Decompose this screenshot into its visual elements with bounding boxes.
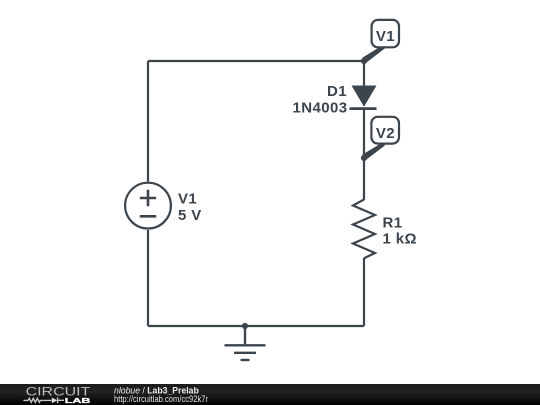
flag V2 <box>362 117 399 160</box>
junction node V2 <box>361 155 367 161</box>
svg-text:1 kΩ: 1 kΩ <box>383 231 417 248</box>
voltage source V1 <box>125 183 171 229</box>
label R1 1 kOhm <box>383 214 417 247</box>
diode D1 <box>350 86 377 109</box>
wire top (node V1 net) <box>148 60 364 62</box>
label D1 1N4003 <box>293 83 348 117</box>
wire bottom (ground net) <box>148 325 364 327</box>
CircuitLab logo: resistor zigzag + diode symbol <box>24 398 65 404</box>
svg-text:1N4003: 1N4003 <box>293 100 348 117</box>
footer bar <box>0 384 540 405</box>
svg-text:D1: D1 <box>327 83 347 100</box>
wire left lower <box>147 230 149 326</box>
svg-text:V2: V2 <box>376 125 395 142</box>
svg-text:V1: V1 <box>376 28 395 45</box>
svg-text:R1: R1 <box>383 214 403 231</box>
flag V1 <box>362 20 399 63</box>
junction node V1 <box>361 58 367 64</box>
svg-text:V1: V1 <box>178 190 197 207</box>
label V1 5 V <box>178 190 202 224</box>
svg-text:http://circuitlab.com/cc92k7r: http://circuitlab.com/cc92k7r <box>114 394 208 404</box>
resistor R1 <box>353 200 375 259</box>
svg-text:LAB: LAB <box>65 396 91 405</box>
wire right upper (V1 node to diode anode) <box>363 61 365 86</box>
wire right lower (resistor to ground net) <box>363 258 365 326</box>
wire right mid (diode cathode to resistor, node V2) <box>363 109 365 200</box>
wire left upper <box>147 61 149 182</box>
svg-text:5 V: 5 V <box>178 207 202 224</box>
ground <box>225 326 266 360</box>
junction ground node <box>242 323 248 329</box>
